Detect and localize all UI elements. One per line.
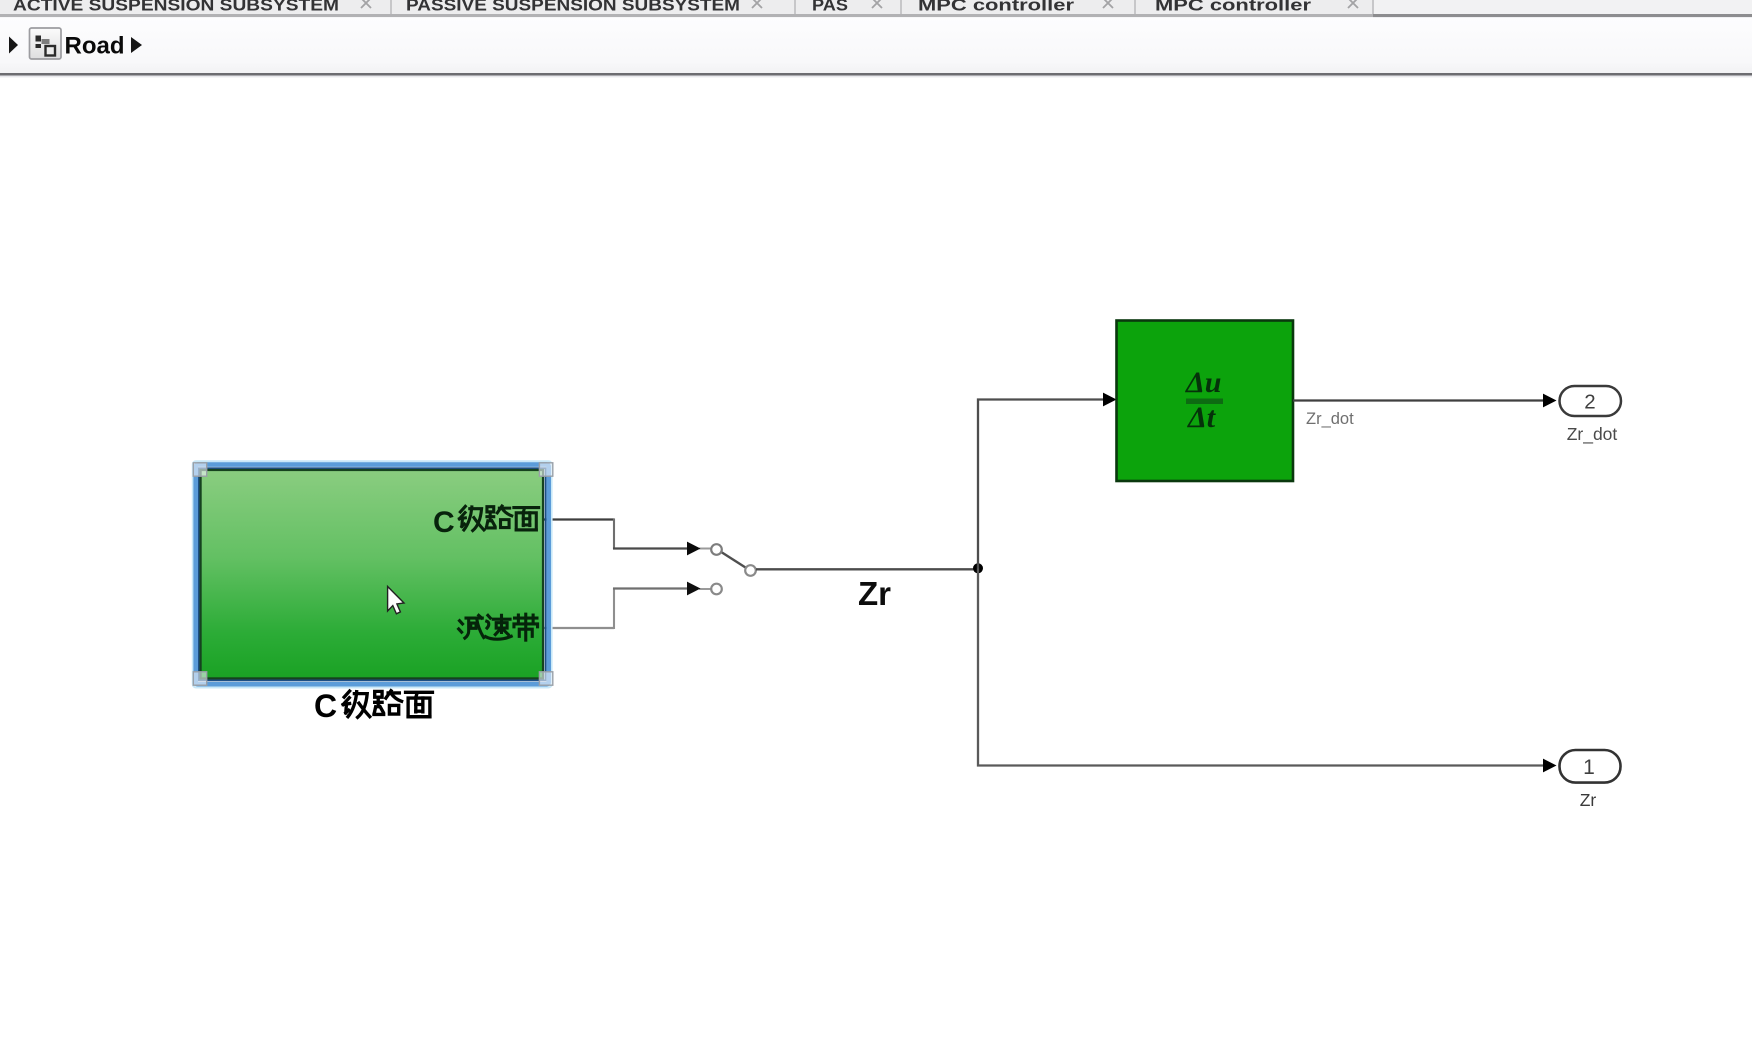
svg-text:MPC controller: MPC controller <box>918 0 1075 15</box>
wire port1 to switch input1 <box>544 518 711 549</box>
svg-text:Zr_dot: Zr_dot <box>1567 424 1618 445</box>
wire port2 to switch input2 <box>544 588 711 629</box>
arrowhead input2 <box>687 582 701 596</box>
switch lever <box>722 553 746 568</box>
selection glow of subsystem block <box>193 461 552 687</box>
wire derivative to outport2 <box>1293 399 1544 401</box>
port label C级路面 (inside block, upper) <box>433 506 539 539</box>
svg-text:MPC controller: MPC controller <box>1155 0 1312 15</box>
tab separators <box>390 0 1374 14</box>
svg-text:PAS: PAS <box>812 0 848 15</box>
tabstrip bottom band <box>0 14 1752 17</box>
tab strip background <box>0 0 1752 14</box>
wire junction down to outport1 <box>978 569 1544 766</box>
svg-text:Road: Road <box>65 33 125 60</box>
wire junction up to derivative <box>978 400 1104 569</box>
svg-text:ACTIVE SUSPENSION SUBSYSTEM: ACTIVE SUSPENSION SUBSYSTEM <box>13 0 339 15</box>
breadcrumb subsystem icon button <box>30 28 62 59</box>
svg-text:Zr: Zr <box>858 575 891 612</box>
svg-text:C: C <box>433 506 455 539</box>
svg-text:Δu: Δu <box>1185 366 1222 399</box>
outport 1 <box>1560 750 1621 783</box>
switch output circle <box>745 565 756 576</box>
arrowhead into derivative <box>1103 393 1117 407</box>
selection corner handles <box>193 463 553 685</box>
breadcrumb next triangle <box>131 37 142 53</box>
mouse cursor <box>388 587 404 614</box>
manual switch contact circles <box>711 544 722 555</box>
svg-text:PASSIVE SUSPENSION SUBSYSTEM: PASSIVE SUSPENSION SUBSYSTEM <box>406 0 740 15</box>
svg-text:C: C <box>314 688 337 724</box>
junction dot <box>973 563 983 573</box>
svg-text:2: 2 <box>1584 391 1595 414</box>
breadcrumb bar <box>0 17 1752 73</box>
svg-text:1: 1 <box>1583 756 1595 779</box>
tab captions (clipped at top of window) <box>13 0 1312 15</box>
svg-text:Δt: Δt <box>1187 401 1217 434</box>
subsystem block C级路面 <box>201 470 543 678</box>
arrowhead input1 <box>687 542 701 556</box>
outport 2 <box>1560 386 1622 416</box>
derivative block <box>1117 321 1294 482</box>
port label 减速带 (inside block, lower) <box>459 614 538 640</box>
svg-text:Zr_dot: Zr_dot <box>1306 410 1354 428</box>
arrowhead into outport2 <box>1543 394 1557 408</box>
derivative icon Δu/Δt <box>1185 366 1222 434</box>
svg-text:Zr: Zr <box>1580 790 1597 810</box>
bar bottom separator <box>0 73 1752 76</box>
tab close x marks <box>361 0 1358 8</box>
breadcrumb expander triangle <box>9 37 18 54</box>
wire switch output to junction <box>756 568 978 570</box>
arrowhead into outport1 <box>1543 759 1557 773</box>
block name label C级路面 <box>314 688 432 724</box>
